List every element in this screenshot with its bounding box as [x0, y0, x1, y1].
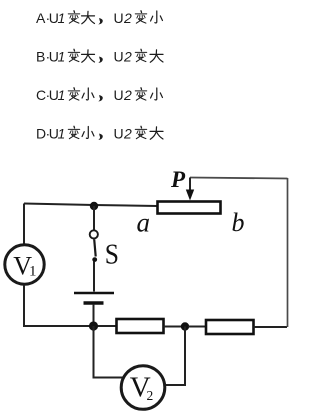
svg-text:A: A: [36, 10, 46, 26]
svg-text:U: U: [114, 10, 124, 26]
label P: [170, 167, 186, 192]
wire right vertical: [287, 178, 289, 327]
svg-text:S: S: [105, 238, 119, 270]
resistor R1: [117, 319, 164, 333]
wire top-right horizontal: [190, 178, 288, 179]
node bottom-right junction: [181, 322, 189, 330]
svg-text:2: 2: [123, 126, 132, 142]
svg-text:b: b: [232, 208, 245, 237]
voltmeter V1: [5, 245, 44, 284]
label S: [105, 238, 119, 270]
svg-text:1: 1: [29, 264, 37, 280]
resistor R2: [206, 320, 254, 334]
wire left vertical lower: [23, 285, 25, 326]
label b: [232, 208, 245, 237]
svg-text:1: 1: [58, 49, 66, 65]
wire left vertical upper: [23, 204, 25, 245]
svg-text:1: 1: [58, 126, 66, 142]
wire battery to bottom node: [93, 304, 95, 326]
svg-text:U: U: [114, 49, 124, 65]
svg-text:2: 2: [123, 87, 132, 103]
wire node to switch: [93, 206, 95, 230]
wire bottom-left horizontal: [23, 325, 116, 327]
voltmeter V2: [121, 366, 165, 410]
svg-text:U: U: [114, 126, 124, 142]
option C text: [36, 87, 162, 103]
option D text: [36, 126, 163, 142]
wire R1 to node: [164, 326, 183, 328]
option A text: [36, 10, 162, 26]
wire node to R2: [188, 326, 206, 328]
switch S: [90, 230, 98, 262]
potentiometer slider wire and arrow P: [186, 178, 194, 201]
svg-text:2: 2: [147, 388, 154, 403]
svg-text:1: 1: [58, 10, 66, 26]
wire top-left horizontal: [24, 204, 157, 207]
node top junction: [90, 202, 98, 210]
battery: [74, 293, 114, 303]
wire switch to battery: [93, 262, 95, 292]
svg-text:B: B: [36, 49, 45, 65]
wire V2 left branch: [94, 326, 125, 378]
option B text: [36, 49, 163, 65]
svg-text:P: P: [170, 167, 186, 192]
svg-text:U: U: [114, 87, 124, 103]
wire V2 right branch: [166, 327, 185, 386]
label a: [137, 208, 151, 238]
svg-text:1: 1: [58, 87, 66, 103]
svg-text:2: 2: [123, 10, 132, 26]
node bottom-left junction: [89, 321, 98, 330]
wire R2 to right corner: [254, 326, 288, 328]
potentiometer resistor a-b: [158, 202, 221, 214]
svg-text:2: 2: [123, 49, 132, 65]
svg-text:a: a: [137, 208, 151, 238]
